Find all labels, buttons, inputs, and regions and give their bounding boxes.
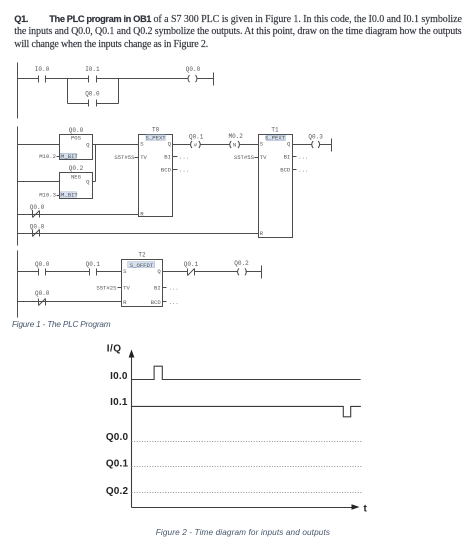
svg-text:Q: Q (287, 141, 291, 148)
svg-text:BCD: BCD (151, 299, 162, 306)
wire T1 BCD dash (293, 169, 297, 171)
svg-text:S5T#5S: S5T#5S (234, 154, 255, 161)
selection highlight M_BIT POS (60, 153, 76, 158)
svg-text:I0.0: I0.0 (35, 66, 50, 73)
wire (97, 103, 119, 105)
contact Q0.0 NC (to T1 R) (33, 230, 40, 237)
svg-text:#: # (194, 142, 198, 149)
svg-text:T1: T1 (271, 127, 279, 134)
svg-text:T0: T0 (152, 127, 160, 134)
wire S5T#5S to TV of T1 (255, 157, 259, 159)
svg-text:Q: Q (157, 268, 161, 275)
network 2 left power rail (17, 127, 19, 246)
svg-text:R: R (123, 299, 127, 306)
wire reset row net3 (18, 301, 122, 303)
svg-text:T2: T2 (138, 252, 146, 259)
network 3 left power rail (17, 251, 19, 318)
svg-text:Q0.0: Q0.0 (106, 432, 129, 443)
svg-text:...: ... (169, 284, 179, 291)
svg-text:BI: BI (284, 154, 291, 161)
wire T0 BCD dash (173, 169, 178, 171)
caption figure 2 (156, 528, 330, 537)
svg-text:I/Q: I/Q (107, 344, 122, 355)
svg-text:...: ... (298, 154, 308, 161)
svg-text:M_BIT: M_BIT (61, 191, 78, 198)
svg-text:Q: Q (86, 179, 90, 186)
wire S5T#5S to TV of T0 (135, 157, 139, 159)
axis arrow up (129, 350, 135, 358)
svg-text:Q0.0: Q0.0 (30, 223, 45, 230)
contact Q0.0 NC (to T2 R) (39, 299, 46, 306)
coil Q0.1 (#) (191, 141, 201, 148)
network 1 left power rail (17, 63, 19, 119)
svg-text:Q0.2: Q0.2 (106, 486, 129, 497)
svg-text:TV: TV (123, 284, 130, 291)
svg-text:S5T#5S: S5T#5S (114, 154, 135, 161)
coil M0.2 (N) (230, 141, 240, 148)
selection highlight M_BIT NEG (60, 192, 76, 197)
svg-text:TV: TV (140, 154, 147, 161)
branch vertical left (67, 79, 69, 104)
dotted Q0.1 (132, 466, 363, 468)
box POS (edge detect) (60, 135, 93, 160)
svg-text:POS: POS (71, 135, 82, 142)
svg-text:M10.3: M10.3 (39, 191, 56, 198)
dotted Q0.2 (132, 492, 363, 494)
right rail net1 (213, 73, 215, 86)
svg-text:Q0.0: Q0.0 (35, 290, 50, 297)
svg-text:M10.2: M10.2 (39, 153, 56, 160)
contact I0.1 (89, 76, 97, 83)
wire (46, 78, 89, 80)
svg-text:NEG: NEG (71, 173, 82, 180)
svg-text:...: ... (169, 299, 179, 306)
wire to right rail (246, 271, 262, 273)
caption figure 1 (12, 320, 110, 329)
wire rung1 main (18, 78, 39, 80)
svg-text:Q0.0: Q0.0 (69, 127, 84, 134)
svg-text:S: S (260, 141, 264, 148)
contact I0.0 (39, 76, 46, 83)
branch vertical right (118, 79, 120, 104)
svg-text:...: ... (298, 167, 308, 174)
svg-text:Q0.0: Q0.0 (186, 66, 201, 73)
wire NEG Q out (93, 181, 96, 183)
svg-text:M0.2: M0.2 (228, 133, 243, 140)
svg-text:Q0.3: Q0.3 (308, 133, 323, 140)
axis arrow right (352, 504, 360, 510)
svg-text:BI: BI (154, 284, 161, 291)
svg-text:Q0.1: Q0.1 (184, 261, 199, 268)
wire POS Q out (93, 144, 139, 146)
svg-text:BCD: BCD (161, 167, 172, 174)
right rail net2 (331, 139, 333, 152)
timer T1 box S_PEXT (259, 135, 293, 238)
contact Q0.0 NC (to T0 R) (33, 211, 40, 218)
svg-text:BCD: BCD (280, 167, 291, 174)
svg-text:Q0.0: Q0.0 (85, 91, 100, 98)
axis vertical (131, 357, 133, 508)
coil Q0.0 (188, 75, 197, 82)
wire rung3 (18, 271, 39, 273)
svg-text:Q0.0: Q0.0 (35, 261, 50, 268)
wire to POS box (18, 144, 60, 146)
svg-text:S: S (140, 141, 144, 148)
wire M10.3 dash (57, 195, 61, 197)
wire to NEG box (18, 181, 60, 183)
svg-text:S_OFFDT: S_OFFDT (130, 262, 154, 269)
wire to T2 (97, 271, 122, 273)
wire M10.2 dash (57, 156, 61, 158)
signal I0.1 (132, 406, 361, 416)
signal I0.0 (132, 366, 361, 379)
svg-text:Q0.1: Q0.1 (106, 458, 129, 469)
contact Q0.1 NO (90, 269, 97, 276)
wire S5T#2S to TV of T2 (118, 287, 122, 289)
wire T0 BI dash (173, 156, 178, 158)
svg-text:Q0.1: Q0.1 (189, 134, 204, 141)
svg-text:Q0.0: Q0.0 (30, 204, 45, 211)
selection highlight S_PEXT T0 (146, 135, 165, 140)
wire (97, 78, 188, 80)
svg-text:N: N (233, 142, 236, 149)
wire T1 Q out (293, 144, 312, 146)
wire T1 BI dash (293, 156, 297, 158)
svg-text:S_PEXT: S_PEXT (265, 135, 286, 142)
contact Q0.1 NC (188, 269, 195, 276)
wire reset row 2 (18, 233, 259, 235)
wire to T1 (240, 144, 259, 146)
dotted Q0.0 (132, 441, 363, 443)
selection highlight S_PEXT T1 (266, 135, 285, 140)
svg-text:S: S (123, 268, 127, 275)
wire to right rail (197, 78, 214, 80)
contact Q0.0 (seal-in) (89, 100, 97, 107)
wire T2 Q out (163, 271, 188, 273)
box NEG (edge detect) (60, 173, 93, 199)
question paragraph (14, 13, 462, 52)
svg-text:Q: Q (168, 141, 172, 148)
contact Q0.0 NO (39, 269, 46, 276)
svg-text:TV: TV (260, 154, 267, 161)
svg-text:BI: BI (164, 154, 171, 161)
svg-text:Q: Q (86, 141, 90, 148)
svg-text:Q0.2: Q0.2 (69, 165, 84, 172)
timer T0 box S_PEXT (139, 135, 173, 217)
wire T0 Q out (173, 144, 191, 146)
svg-text:I0.1: I0.1 (85, 66, 100, 73)
svg-text:...: ... (179, 154, 189, 161)
right rail net3 (261, 266, 263, 279)
svg-text:S_PEXT: S_PEXT (146, 134, 167, 141)
svg-text:t: t (364, 504, 368, 515)
svg-text:S5T#2S: S5T#2S (96, 284, 117, 291)
branch vertical POS/NEG outputs (95, 145, 97, 182)
svg-text:...: ... (179, 167, 189, 174)
axis horizontal (132, 507, 355, 509)
svg-text:I0.1: I0.1 (110, 397, 128, 408)
wire reset row 1 (18, 214, 139, 216)
svg-text:Q0.2: Q0.2 (234, 260, 249, 267)
svg-text:M_BIT: M_BIT (61, 153, 78, 160)
timer T2 box S_OFFDT (122, 260, 163, 307)
svg-text:R: R (260, 230, 264, 237)
wire T2 BCD dash (163, 301, 167, 303)
wire branch lower (68, 103, 89, 105)
wire (46, 271, 90, 273)
wire (195, 271, 238, 273)
coil Q0.2 (238, 268, 247, 275)
wire T2 BI dash (163, 287, 167, 289)
svg-text:Q0.1: Q0.1 (86, 261, 101, 268)
coil Q0.3 (312, 141, 320, 148)
wire (201, 144, 230, 146)
svg-text:I0.0: I0.0 (110, 371, 128, 382)
wire to right rail (320, 144, 332, 146)
selection highlight S_OFFDT T2 (128, 262, 155, 268)
